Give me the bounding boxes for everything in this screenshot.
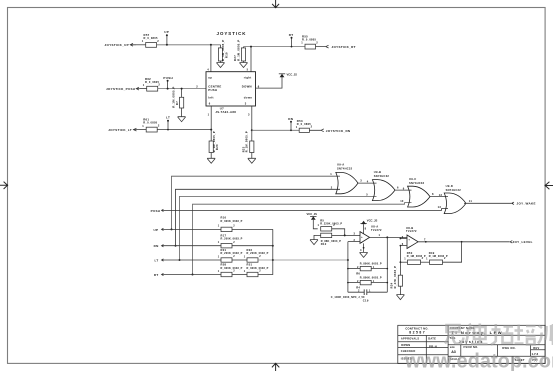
power VCC_JS at U8-A [360,221,366,234]
svg-text:R_200K_0603_P: R_200K_0603_P [247,252,269,255]
svg-text:LT: LT [166,116,170,120]
wire gate C out to gate D in1 [430,196,448,198]
svg-text:1: 1 [142,39,144,43]
wire R16 to bus [232,228,273,230]
off-page arrow bottom [272,363,279,371]
svg-text:SN74HC32: SN74HC32 [409,181,425,185]
svg-text:1: 1 [379,233,381,237]
svg-text:2: 2 [331,185,333,189]
resistor R4 feedback [347,280,388,284]
wire U8-A out to U8-B in top [402,238,407,240]
node DN row [161,245,221,247]
wire net LT to gate B in2 [179,196,377,261]
svg-text:5: 5 [366,192,368,196]
ground at R12 [310,240,318,245]
node UP row [161,228,221,230]
wire U8-B output to JOY_LEVEL [418,241,512,243]
resistor R57 [146,43,157,48]
svg-text:R_0_0805: R_0_0805 [143,121,157,125]
ground under R27 [240,61,248,68]
off-page arrow left [0,182,8,189]
svg-text:R_1M_0805_P: R_1M_0805_P [237,40,241,61]
ground under R19 [217,61,225,68]
svg-text:R_806K_0603_P: R_806K_0603_P [360,277,382,280]
svg-text:UP: UP [153,228,158,232]
svg-text:DRWN: DRWN [401,343,410,347]
svg-text:1: 1 [301,41,303,45]
svg-text:5: 5 [402,235,404,239]
svg-text:FSCM NO.: FSCM NO. [464,345,479,349]
resistor R6 feedback [347,266,388,270]
svg-text:C_10NF_0603_NP0_J_50: C_10NF_0603_NP0_J_50 [331,296,365,299]
svg-text:8: 8 [365,226,367,230]
wire box pin5 [250,46,252,72]
svg-text:R_220K_0603_P: R_220K_0603_P [320,223,342,226]
or-gate U9-D [444,193,466,214]
wire to JOYSTICK_DN [309,129,323,132]
wire R58-R51 [232,274,247,276]
wire RT row [244,46,306,48]
wire LT sum to opamp [258,259,349,261]
svg-text:DN: DN [154,244,159,248]
svg-text:DATE: DATE [428,337,436,341]
svg-text:R12: R12 [321,242,327,246]
wire UP row [157,44,221,46]
wire net DN to gate A in2 [175,189,341,246]
svg-text:R_0_0805: R_0_0805 [297,122,311,126]
watermark glyph 1 [445,325,464,344]
op-amp U8-A [360,232,370,244]
ground under R23 [248,153,256,164]
svg-text:5: 5 [247,68,249,72]
svg-text:down: down [244,96,253,100]
node PUSH row label arrow [161,209,164,211]
resistor R27 [241,47,245,61]
svg-text:1: 1 [296,125,298,129]
svg-text:VCC_JS: VCC_JS [287,73,298,77]
svg-text:R20: R20 [215,144,219,150]
svg-text:3: 3 [354,231,356,235]
wire to JOYSTICK_RT [316,45,329,48]
wire minus input [348,241,360,243]
svg-text:+: + [408,237,410,241]
svg-text:-: - [361,240,362,244]
resistor R58 [221,272,232,276]
gate labels [330,162,536,208]
ground under R20 [207,153,215,164]
wire [136,44,146,46]
wire box pin3 down-right [251,106,253,130]
svg-text:U9-A: U9-A [337,162,344,166]
svg-text:UP: UP [164,30,169,34]
svg-text:1: 1 [208,112,210,116]
svg-text:R_200K_0603_P: R_200K_0603_P [221,252,243,255]
resistor R12 [321,233,332,237]
svg-text:2: 2 [316,40,318,44]
svg-text:6: 6 [397,186,399,190]
resistor R51 [247,272,258,276]
svg-text:U8-B: U8-B [406,226,413,230]
svg-text:VCC_JS: VCC_JS [367,218,378,222]
svg-text:R_300K_0603_P: R_300K_0603_P [221,220,243,223]
svg-text:SN74HC32: SN74HC32 [374,174,390,178]
svg-text:6: 6 [209,102,211,106]
wire R12 node to opamp plus [332,234,360,236]
wire bus vertical [258,229,273,274]
wire DOWN pin to VCC [256,77,283,89]
off-page arrow right [544,182,553,190]
svg-text:4: 4 [207,68,209,72]
resistor R24 vertical [398,262,402,286]
op-amp section labels [307,212,533,303]
ground under R24 [396,286,404,299]
title block left rows [398,336,448,355]
ground under U8-A [360,243,368,257]
wire box pin4 [210,44,212,72]
svg-text:R_1M_0805_P: R_1M_0805_P [245,131,249,152]
or-gate U9-C [408,186,430,207]
svg-text:LT: LT [154,258,158,262]
resistor R19 [218,45,222,61]
svg-text:JOYSTICK_DN: JOYSTICK_DN [326,129,351,133]
svg-text:RT: RT [289,33,294,37]
svg-text:C19: C19 [363,299,369,303]
svg-text:DOWN: DOWN [242,85,252,89]
resistor R5 [321,227,332,231]
svg-text:JOYSTICK: JOYSTICK [217,31,247,36]
title block left inner vert [425,336,427,364]
svg-text:1: 1 [330,172,332,176]
svg-text:PUSH: PUSH [163,76,173,80]
node LT stub [167,120,169,131]
svg-text:13: 13 [438,205,442,209]
watermark glyph 2 [466,324,488,345]
svg-text:DWG NO.: DWG NO. [502,346,516,350]
title block col divider [447,325,449,363]
wire [140,88,147,90]
svg-text:4: 4 [360,248,362,252]
wire feedback loop right [443,242,462,262]
ALL TOP TEXT [105,30,356,152]
resistor R17 [221,244,232,248]
svg-text:3: 3 [245,102,247,106]
svg-text:R27: R27 [233,55,237,61]
op-amp U8-B [407,235,418,249]
node DN stub [290,121,292,131]
watermark glyph 4 [515,325,536,345]
wire gate A out to gate B in1 [358,182,377,184]
svg-text:R_0_0805: R_0_0805 [144,36,158,40]
wire PUSH row [158,88,206,90]
wire gate B out to gate C in1 [395,189,412,191]
watermark glyph 5 [538,324,553,345]
node JOYSTICK_UP label [130,43,136,46]
svg-text:PR-H: PR-H [429,345,437,349]
node RT row [161,273,221,275]
or-gate U9-A [336,172,358,193]
svg-text:PUSH: PUSH [208,88,217,92]
wire LT row [157,129,211,131]
svg-text:1: 1 [142,124,144,128]
svg-text:R_300K_0603_P: R_300K_0603_P [221,267,243,270]
wire box pin1 down-left [210,106,212,130]
wire U8-A output [370,236,407,238]
svg-text:SIZE: SIZE [450,347,455,349]
wire net RT to gate C in2 [192,203,412,276]
wire [140,129,147,131]
wire R17 to bus [232,245,274,247]
svg-text:TLV272: TLV272 [371,228,382,232]
svg-text:REV: REV [533,346,539,350]
wire DN row [252,129,299,131]
svg-text:R6: R6 [356,271,360,275]
wire feedback right bus [386,237,388,292]
svg-text:11: 11 [469,199,473,203]
svg-text:DN: DN [288,117,293,121]
wire net UP to gate A in1 [171,176,341,230]
node JOYSTICK_PUSH label arrow [136,87,140,90]
svg-text:R_47K_0603_P: R_47K_0603_P [393,266,397,289]
svg-text:JOYSTICK_UP: JOYSTICK_UP [105,43,129,47]
svg-text:2: 2 [354,238,356,242]
svg-text:2: 2 [311,125,313,129]
svg-text:JOYSTICK_PUSH: JOYSTICK_PUSH [106,87,135,91]
svg-text:R_200K_0603_P: R_200K_0603_P [221,238,243,241]
off-page arrow top [272,0,279,8]
svg-text:APPROVALS: APPROVALS [401,337,419,341]
svg-text:PUSH: PUSH [151,209,161,213]
svg-text:7: 7 [424,237,426,241]
watermark glyph 3 [491,324,513,345]
svg-text:-: - [409,244,410,248]
wire R50 to node [400,261,408,263]
title block outline [398,325,545,363]
joystick component U7 box [206,72,256,106]
resistor R49 [430,260,443,264]
capacitor C19 feedback [348,289,387,295]
svg-text:8: 8 [432,192,434,196]
node PUSH stub [167,80,169,90]
svg-text:12: 12 [439,193,443,197]
junction box pin1 / LT [210,129,212,131]
svg-text:left: left [208,96,213,100]
wire R12 left to ground [314,235,321,239]
svg-text:JOYSTICK_RT: JOYSTICK_RT [332,45,356,49]
svg-text:+: + [361,235,363,239]
svg-text:U9-D: U9-D [446,184,453,188]
wire net PUSH long to gate D in2 [164,209,448,211]
wire gate D out to JOY_WAKE [464,202,514,204]
resistor R21 [221,258,232,262]
title block text [401,326,540,362]
title block right rows [448,335,545,356]
svg-text:4: 4 [367,179,369,183]
svg-text:R_0_0805: R_0_0805 [145,80,159,84]
svg-text:www.edatop.com: www.edatop.com [404,351,553,371]
svg-text:TLV272: TLV272 [406,229,417,233]
node LT row [161,259,221,261]
svg-text:R_0_0805: R_0_0805 [302,38,316,42]
svg-text:2: 2 [196,85,198,89]
power VCC_JS at joystick [279,74,285,77]
resistor R61 [146,127,157,132]
svg-text:U9-C: U9-C [409,177,416,181]
lower row labels [151,209,269,277]
wire U8-B fb vertical [399,246,401,263]
junction box pin3 / DN [251,129,253,131]
svg-text:2: 2 [157,39,159,43]
resistor R53 [299,128,309,132]
svg-text:6: 6 [258,84,260,88]
node RT stub [291,37,293,48]
resistor R20 vertical [209,130,213,153]
resistor R62 [147,86,158,91]
title block size row verts [461,345,545,364]
svg-text:up: up [208,75,212,79]
svg-text:JOY_WAKE: JOY_WAKE [517,202,536,206]
resistor R7 vertical [180,88,184,108]
resistor R50 [408,260,421,264]
svg-text:SN74HC32: SN74HC32 [337,166,353,170]
svg-text:6: 6 [402,242,404,246]
watermark chinese characters [445,324,553,346]
svg-text:R7: R7 [175,101,179,105]
svg-text:2: 2 [158,83,160,87]
svg-text:2: 2 [158,124,160,128]
wire R5 to node [332,229,345,236]
svg-text:9: 9 [403,186,405,190]
ground under R7 [178,108,186,122]
wire U8-B minus input [400,238,408,247]
svg-text:JS-TAE1-A88: JS-TAE1-A88 [215,110,236,114]
svg-text:10: 10 [400,199,404,203]
wire feedback left bus [347,242,349,293]
svg-text:1: 1 [143,83,145,87]
svg-text:U8-A: U8-A [371,224,378,228]
svg-text:3: 3 [248,112,250,116]
node UP stub [166,34,168,46]
svg-text:R_300K_0603_P: R_300K_0603_P [247,267,269,270]
svg-text:SN74HC32: SN74HC32 [446,188,462,192]
svg-text:JOY_LEVEL: JOY_LEVEL [513,240,533,244]
node JOYSTICK_LT label arrow [133,128,140,131]
svg-text:82587: 82587 [409,331,426,335]
svg-text:VCC_JS: VCC_JS [307,212,318,216]
resistor R55 [305,44,316,49]
svg-text:3: 3 [360,179,362,183]
svg-text:R19: R19 [224,52,228,58]
svg-text:R_806K_0603_P: R_806K_0603_P [360,263,382,266]
svg-text:U9-B: U9-B [374,170,381,174]
wire R49-R50 [421,261,430,263]
svg-text:RT: RT [154,273,159,277]
resistor R22 [247,258,258,262]
resistor R23 vertical [250,130,254,152]
or-gate U9-B [372,180,395,201]
resistor R16 [221,227,232,231]
svg-text:JOYSTICK_LT: JOYSTICK_LT [108,128,132,132]
wire R21-R22 [232,259,247,261]
svg-text:right: right [244,75,252,79]
power VCC_JS left [310,216,318,228]
